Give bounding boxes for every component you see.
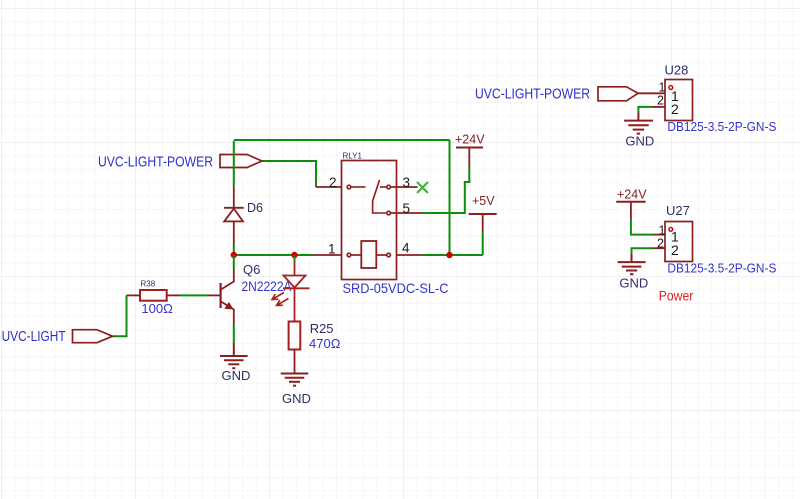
power flag +24V (center) (456, 148, 483, 167)
relay pin 1 stub (313, 254, 342, 256)
wire right vertical down to pin4 net (449, 140, 451, 255)
relay pin 5 stub (390, 212, 421, 214)
Q6 base bar (220, 283, 222, 308)
led lower pin to R25 (294, 288, 296, 321)
svg-text:GND: GND (282, 391, 311, 406)
ground GND under Q6 (220, 342, 248, 368)
Q6 emitter with arrow (221, 302, 234, 325)
relay pin 4 stub (397, 254, 423, 256)
relay switch blade (373, 180, 387, 213)
svg-text:UVC-LIGHT-POWER: UVC-LIGHT-POWER (475, 87, 590, 103)
svg-text:R38: R38 (141, 280, 156, 289)
wire green above D6 (233, 141, 235, 187)
wire flag to U28 pin1 (638, 92, 665, 94)
svg-text:GND: GND (619, 275, 648, 290)
U28 pin1 indicator (669, 86, 673, 90)
wire pin4 to +5V branch (423, 254, 483, 256)
led light arrows (272, 293, 289, 306)
no-connect X on pin 3 (417, 182, 428, 193)
junction at LED branch (291, 252, 297, 258)
ground GND at U28 (624, 113, 653, 134)
connector U28 (665, 80, 693, 121)
svg-text:+24V: +24V (617, 187, 647, 201)
svg-text:GND: GND (222, 368, 251, 383)
net flag UVC-LIGHT (73, 330, 113, 343)
led LED1 (283, 276, 310, 289)
wire junction to LED (294, 255, 296, 262)
svg-text:1: 1 (328, 242, 336, 257)
relay coil (347, 241, 390, 268)
wire +5V down to pin4 net (482, 232, 484, 255)
wire +24V to relay pin5 (422, 167, 470, 214)
svg-text:5: 5 (403, 201, 411, 216)
net flag UVC-LIGHT-POWER (right) (598, 87, 638, 101)
diode D6 lower pin (233, 221, 235, 244)
wire top horizontal from D6 node to right vertical (234, 139, 450, 141)
svg-text:2: 2 (329, 175, 337, 190)
relay pin2 contact (347, 180, 390, 215)
svg-text:2: 2 (671, 101, 679, 117)
power flag +24V (right) (616, 202, 645, 220)
wire from left flag tip to relay pin 2 (262, 161, 316, 187)
relay pin3 contact (387, 185, 391, 189)
svg-text:RLY1: RLY1 (343, 152, 363, 161)
net flag UVC-LIGHT-POWER (left) (220, 155, 262, 168)
transistor Q6 (208, 269, 234, 324)
svg-text:UVC-LIGHT-POWER: UVC-LIGHT-POWER (98, 155, 213, 171)
connector U27 (665, 222, 693, 262)
svg-text:U28: U28 (665, 63, 689, 78)
wire D6 to junction (233, 244, 235, 255)
U28 pin2 stub (652, 106, 665, 108)
power flag +5V (469, 214, 497, 232)
wire U27 pin2 to GND (632, 248, 654, 254)
U27 pin1 indicator (669, 227, 673, 231)
svg-text:SRD-05VDC-SL-C: SRD-05VDC-SL-C (343, 280, 449, 296)
svg-text:DB125-3.5-2P-GN-S: DB125-3.5-2P-GN-S (667, 119, 776, 134)
ground GND at U27 (618, 254, 646, 274)
R38 right pin (167, 294, 180, 296)
svg-text:100Ω: 100Ω (141, 301, 173, 316)
svg-text:GND: GND (625, 134, 654, 149)
wire R38 to Q6 base (180, 294, 208, 296)
svg-text:2: 2 (671, 242, 679, 258)
relay pin 2 stub (316, 186, 342, 188)
svg-text:+24V: +24V (455, 133, 485, 147)
svg-text:U27: U27 (666, 203, 690, 218)
U27 pin1 stub (653, 234, 665, 236)
svg-text:1: 1 (659, 224, 666, 238)
wire Q6 collector green (233, 255, 235, 269)
led LED1 upper pin (294, 262, 296, 276)
junction pin4 net (446, 252, 452, 258)
svg-text:+5V: +5V (472, 194, 495, 208)
wire UVC-LIGHT flag to R38 (113, 295, 127, 336)
ground GND under R25 (281, 374, 309, 386)
diode D6 (224, 208, 244, 222)
svg-text:D6: D6 (247, 201, 263, 215)
resistor R25 (289, 322, 301, 350)
svg-text:R25: R25 (310, 321, 334, 336)
svg-text:DB125-3.5-2P-GN-S: DB125-3.5-2P-GN-S (667, 261, 776, 276)
R25 lower pin (294, 350, 296, 374)
wire +24V to U27 pin1 (631, 219, 653, 234)
wire Q6 emitter green (233, 324, 235, 342)
relay RLY1 body (342, 161, 397, 280)
U27 pin2 stub (653, 247, 665, 249)
diode D6 upper pin (233, 187, 235, 208)
Q6 base pin (208, 294, 220, 296)
svg-text:Power: Power (659, 288, 694, 303)
svg-text:2N2222A: 2N2222A (242, 279, 292, 294)
R38 left pin (127, 294, 141, 296)
svg-text:Q6: Q6 (243, 262, 260, 277)
svg-text:3: 3 (403, 175, 411, 190)
wire to relay pin1 (295, 254, 313, 256)
wire collector node horizontal (234, 254, 295, 256)
Q6 collector pin (221, 269, 234, 290)
svg-text:2: 2 (657, 94, 664, 108)
svg-text:UVC-LIGHT: UVC-LIGHT (2, 329, 66, 345)
wire U28 pin2 to GND (638, 107, 652, 113)
svg-text:1: 1 (659, 81, 666, 95)
svg-text:4: 4 (402, 241, 410, 256)
resistor R38 (140, 290, 167, 301)
junction at D6/Q6 collector (231, 252, 237, 258)
relay pin 3 stub (390, 186, 417, 188)
svg-text:470Ω: 470Ω (309, 336, 341, 351)
relay pin5 contact (387, 211, 391, 215)
